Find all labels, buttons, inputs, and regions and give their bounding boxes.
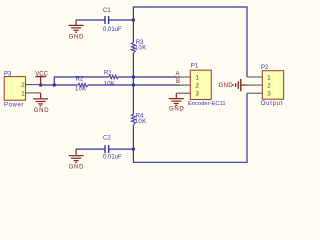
resistor R3 <box>131 40 146 53</box>
svg-text:Output: Output <box>261 101 283 107</box>
svg-text:P2: P2 <box>261 65 269 71</box>
wire <box>133 7 247 77</box>
wire <box>76 148 105 150</box>
capacitor C1 <box>103 8 122 33</box>
ground <box>26 93 50 114</box>
svg-text:1: 1 <box>21 91 25 98</box>
svg-text:1: 1 <box>267 74 271 81</box>
wire <box>109 148 134 150</box>
capacitor C2 <box>103 136 122 161</box>
svg-text:GND: GND <box>34 108 49 114</box>
wire <box>76 19 105 21</box>
svg-text:10K: 10K <box>104 81 116 87</box>
wire <box>132 125 134 149</box>
svg-text:GND: GND <box>169 106 184 112</box>
ground <box>169 93 185 112</box>
connector P2 Output <box>247 65 284 107</box>
wire <box>132 20 134 43</box>
ground <box>69 149 85 170</box>
svg-text:Encoder-EC11: Encoder-EC11 <box>188 101 226 107</box>
svg-text:10K: 10K <box>75 87 87 93</box>
svg-text:P1: P1 <box>191 64 199 70</box>
resistor R2 <box>75 76 88 92</box>
svg-text:2: 2 <box>21 82 25 89</box>
svg-text:10K: 10K <box>135 46 147 52</box>
node <box>39 83 42 86</box>
svg-text:0.01uF: 0.01uF <box>103 154 122 160</box>
power VCC <box>35 71 48 85</box>
wire <box>133 93 247 162</box>
wire <box>54 77 108 85</box>
resistor R1 <box>104 71 118 88</box>
svg-text:VCC: VCC <box>35 71 48 77</box>
net label B <box>176 79 180 85</box>
wire <box>41 84 78 86</box>
svg-text:C2: C2 <box>103 136 111 142</box>
wire <box>88 84 180 86</box>
svg-text:GND: GND <box>69 164 84 170</box>
svg-text:P3: P3 <box>4 71 12 77</box>
resistor R4 <box>131 114 146 126</box>
svg-text:R1: R1 <box>104 71 112 77</box>
svg-text:10K: 10K <box>135 119 147 125</box>
svg-text:2: 2 <box>267 82 271 89</box>
svg-text:GND: GND <box>219 83 234 89</box>
wire <box>132 85 134 114</box>
connector P3 <box>4 71 41 108</box>
svg-text:C1: C1 <box>103 8 111 14</box>
node <box>53 83 56 86</box>
svg-text:0.01uF: 0.01uF <box>103 27 122 33</box>
node <box>132 18 135 21</box>
wire <box>132 53 134 85</box>
svg-text:Power: Power <box>4 102 24 108</box>
connector P1 Encoder-EC11 <box>176 64 225 107</box>
net label A <box>176 72 180 78</box>
node <box>132 83 135 86</box>
node <box>132 147 135 150</box>
svg-text:R2: R2 <box>76 76 84 82</box>
svg-text:B: B <box>176 79 180 85</box>
svg-text:3: 3 <box>267 91 271 98</box>
wire <box>118 76 180 78</box>
ground GND bar at P2 pin 2 <box>219 79 248 91</box>
node <box>132 75 135 78</box>
svg-text:GND: GND <box>69 34 84 40</box>
wire <box>109 19 134 21</box>
ground <box>69 20 85 40</box>
